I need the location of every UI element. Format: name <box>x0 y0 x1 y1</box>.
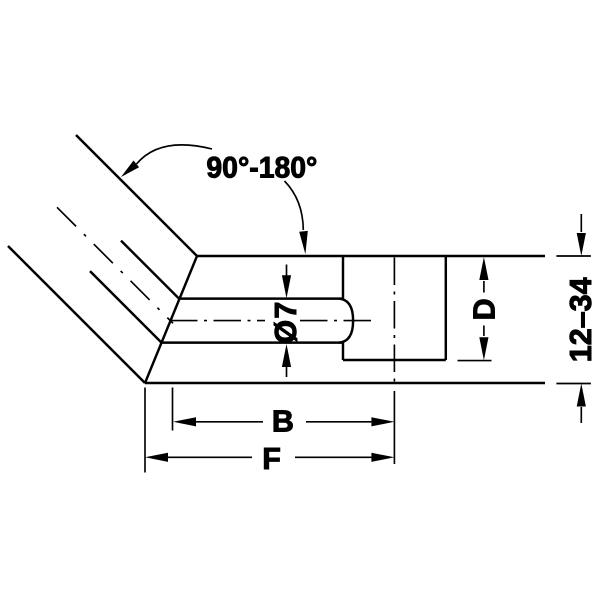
hole centerline <box>393 258 395 386</box>
dimension F right extension line <box>393 391 395 464</box>
flap slot top edge <box>121 241 179 299</box>
dimension F line right segment <box>295 456 371 458</box>
panel bottom edge <box>145 382 545 384</box>
dimension D extension line <box>458 360 492 362</box>
dimension D bottom arrow <box>483 326 485 337</box>
panel top edge <box>197 255 545 257</box>
flap slot bottom edge <box>90 271 162 343</box>
dimension 12-34 top extension line <box>556 255 591 257</box>
hole right edge <box>445 256 447 360</box>
flap centerline <box>57 207 173 323</box>
angle leader left arrowhead <box>121 161 139 178</box>
dimension D top arrow <box>483 281 485 293</box>
dimension Ø7 top arrow <box>286 265 288 277</box>
angle leader left curve <box>137 145 213 164</box>
svg-text:12–34: 12–34 <box>564 277 598 362</box>
flap outer top edge <box>76 135 197 256</box>
svg-text:B: B <box>272 404 294 438</box>
svg-text:F: F <box>262 442 281 476</box>
slot centerline right of label <box>300 320 372 322</box>
angle leader right arrowhead <box>299 231 308 254</box>
angle leader right curve <box>285 181 304 230</box>
hole left edge upper <box>342 256 344 299</box>
dimension B line right segment <box>306 421 371 423</box>
slot top edge <box>179 297 344 299</box>
svg-text:Ø7: Ø7 <box>269 302 303 344</box>
hole left edge lower <box>342 343 344 360</box>
svg-text:90°-180°: 90°-180° <box>206 152 317 185</box>
dimension 12-34 top arrow <box>580 214 582 232</box>
dimension F line left segment <box>168 456 252 458</box>
dimension 12-34 bottom arrow <box>580 407 582 423</box>
dimension Ø7 bottom arrow <box>286 367 288 377</box>
svg-text:D: D <box>467 298 501 320</box>
slot centerline left of label <box>170 320 265 322</box>
dimension B left extension line <box>172 388 174 431</box>
hole bottom edge <box>343 359 446 361</box>
panel left bevel (miter) <box>145 256 197 383</box>
flap outer bottom edge <box>8 246 145 383</box>
dimension B line left segment <box>196 421 263 423</box>
slot rounded end <box>339 299 353 343</box>
dimension 12-34 bottom extension line <box>556 383 591 385</box>
slot bottom edge <box>162 341 345 343</box>
dimension F left extension line <box>144 388 146 473</box>
